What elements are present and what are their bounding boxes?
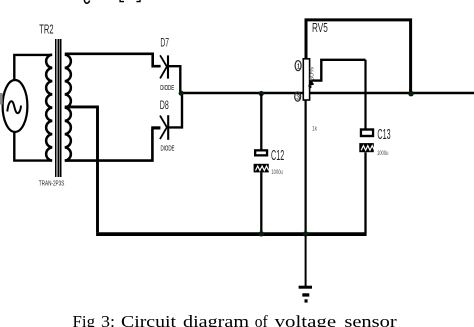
svg-text:1000u: 1000u — [271, 169, 283, 176]
svg-text:D8: D8 — [160, 98, 169, 112]
svg-text:C13: C13 — [377, 127, 390, 143]
svg-text:1k: 1k — [312, 125, 318, 132]
svg-text:1000u: 1000u — [377, 150, 389, 157]
svg-text:Fig: Fig — [73, 312, 96, 327]
svg-text:3:: 3: — [101, 312, 115, 327]
svg-text:C12: C12 — [271, 148, 284, 164]
svg-text:diagram: diagram — [183, 312, 249, 327]
svg-text:Circuit: Circuit — [121, 312, 176, 327]
svg-text:of: of — [255, 312, 268, 327]
svg-text:TR2: TR2 — [39, 21, 53, 36]
svg-text:DIODE: DIODE — [161, 146, 175, 153]
svg-text:1: 1 — [297, 64, 301, 71]
svg-text:TRAN-2P3S: TRAN-2P3S — [39, 178, 65, 187]
svg-text:D7: D7 — [160, 35, 169, 49]
svg-text:3: 3 — [296, 95, 300, 102]
svg-text:RV5: RV5 — [312, 21, 328, 35]
svg-text:50%: 50% — [309, 67, 315, 81]
svg-text:sensor: sensor — [344, 312, 397, 327]
svg-text:voltage: voltage — [275, 312, 337, 327]
svg-text:DIODE: DIODE — [160, 85, 174, 92]
